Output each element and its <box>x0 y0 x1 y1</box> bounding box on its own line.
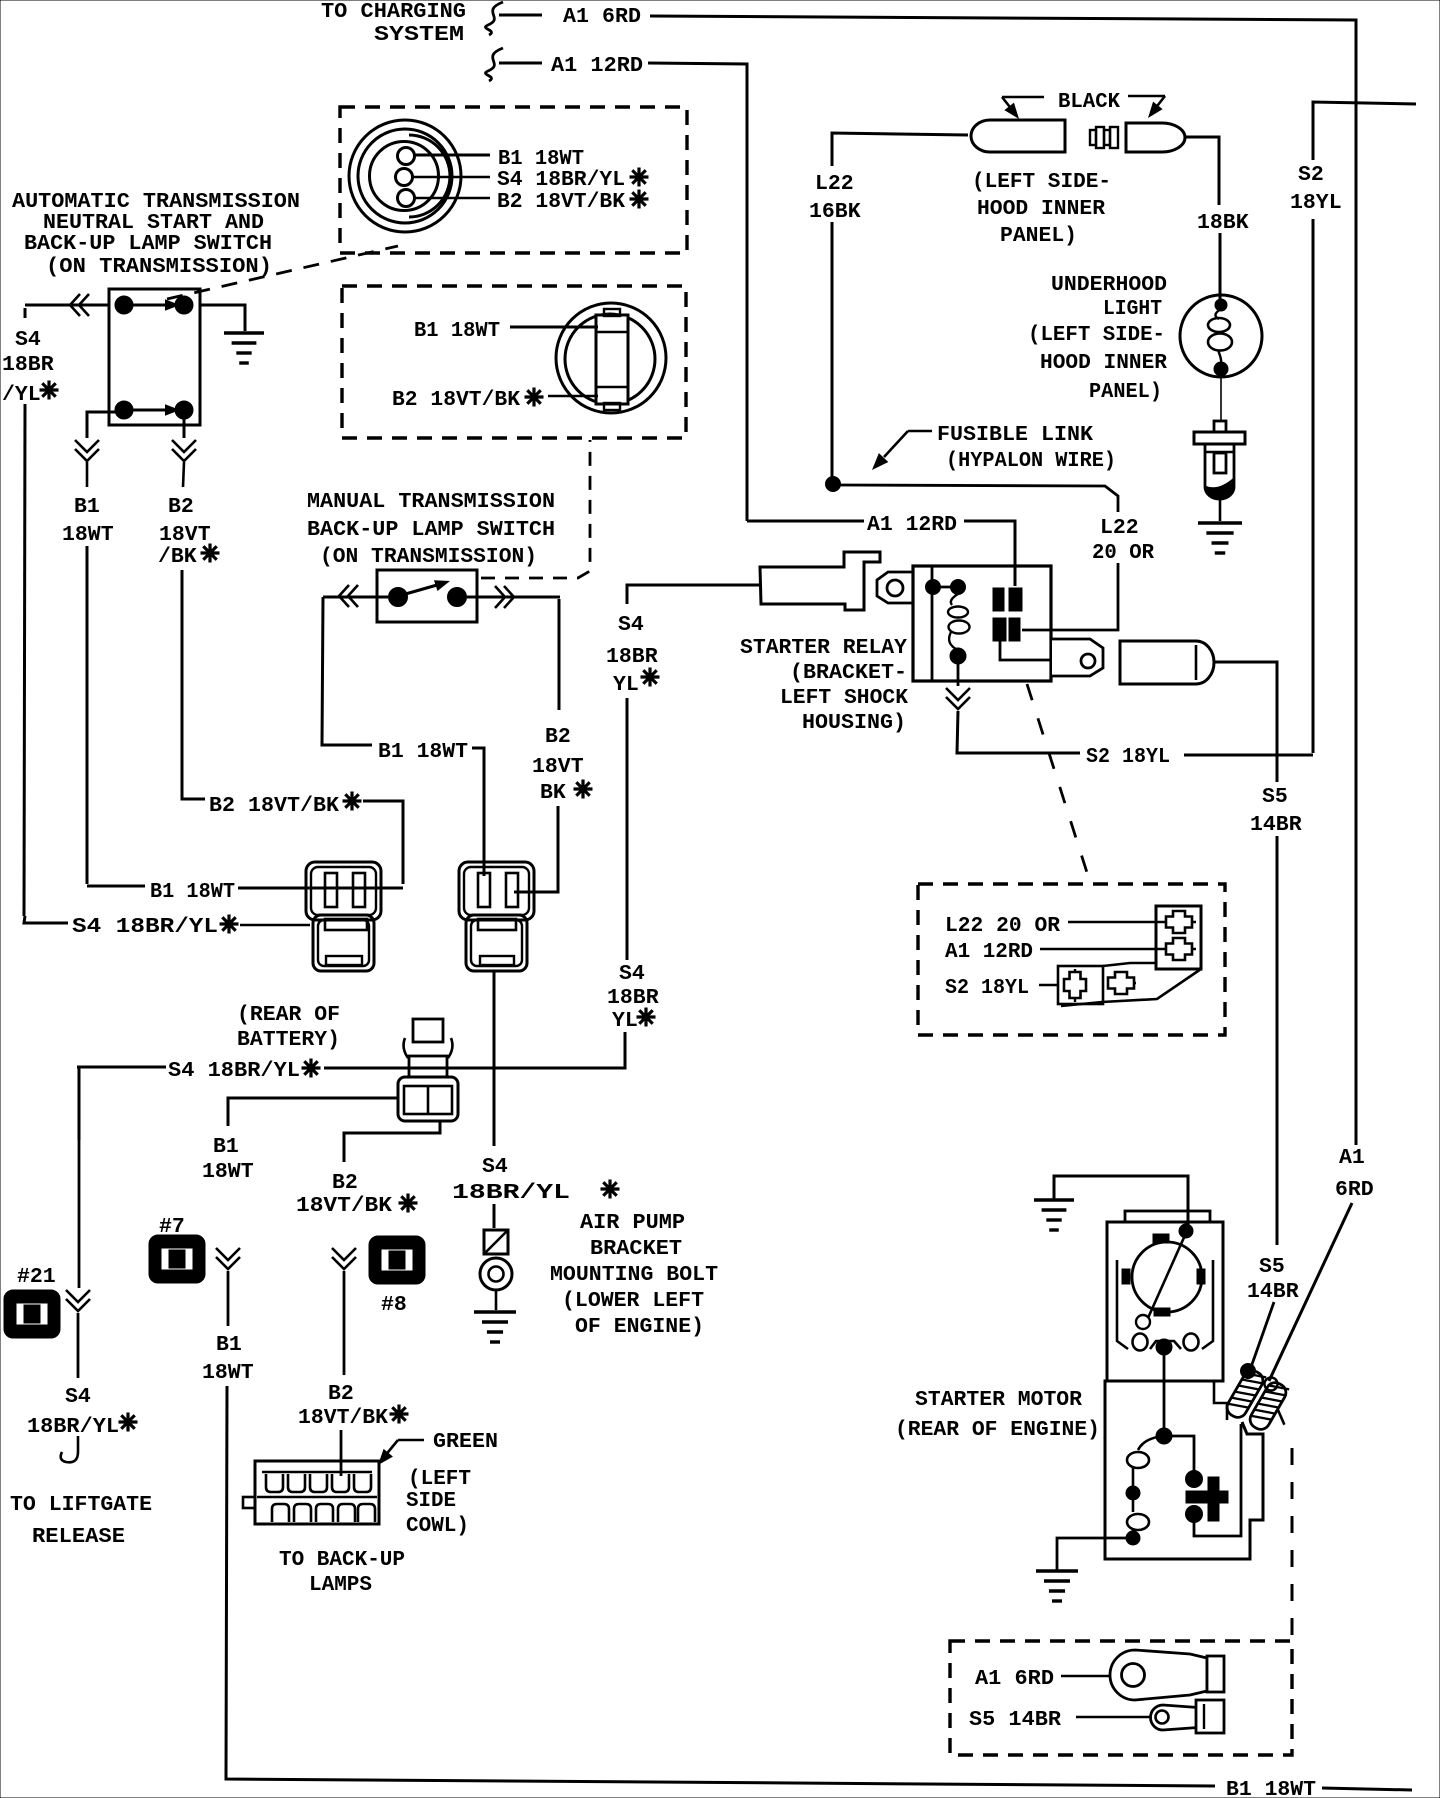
wire S4 liftgate <box>78 1140 81 1288</box>
label S2 18YL (relay) <box>1086 745 1170 769</box>
svg-text:BACK-UP LAMP SWITCH: BACK-UP LAMP SWITCH <box>24 232 272 256</box>
underhood light bulb <box>1180 295 1262 377</box>
label B2 18VT/BK (upper) <box>296 1171 418 1218</box>
motor armature circle <box>1132 1242 1202 1312</box>
wire B1 long drop <box>86 546 89 884</box>
wire break A1 12RD <box>486 48 503 81</box>
label B1 18WT (low) <box>202 1333 254 1385</box>
label 18BK <box>1197 211 1249 235</box>
svg-text:AIR PUMP: AIR PUMP <box>580 1211 685 1235</box>
chevrons relay S2 <box>946 688 970 709</box>
motor yoke <box>1117 1260 1213 1351</box>
svg-text:B2: B2 <box>328 1382 354 1406</box>
label B2 18VT/BK (oval) <box>392 388 544 413</box>
wire S5 diagonal <box>1250 1302 1274 1370</box>
svg-text:18VT/BK: 18VT/BK <box>296 1194 392 1218</box>
auto switch body <box>109 289 200 425</box>
contact dot <box>115 296 133 314</box>
wire B1 bottom right <box>1322 1788 1412 1790</box>
svg-text:18BR/YL: 18BR/YL <box>27 1415 119 1439</box>
svg-text:GREEN: GREEN <box>433 1430 498 1454</box>
ring terminal <box>1110 1650 1224 1700</box>
wire box4 A1 <box>1061 1675 1110 1678</box>
chevrons S4 liftgate <box>66 1290 90 1311</box>
svg-text:18BR: 18BR <box>2 353 54 377</box>
svg-text:14BR: 14BR <box>1250 813 1302 837</box>
label B2 18VT/BK (pin) <box>497 190 649 215</box>
svg-text:18WT: 18WT <box>62 523 114 547</box>
label B2 18VT BK (manual) <box>532 725 593 805</box>
label A1 6RD <box>563 5 641 29</box>
contact dot <box>115 401 133 419</box>
terminal cross A1 <box>1162 938 1196 960</box>
relay coil <box>948 594 970 650</box>
arrow to female connector <box>1002 97 1044 123</box>
svg-text:18YL: 18YL <box>1290 191 1342 215</box>
wire 18BK <box>1185 137 1219 205</box>
wire S2 label to column <box>1184 754 1313 757</box>
wire hook to liftgate <box>61 1436 78 1462</box>
ground (underhood light) <box>1198 523 1242 553</box>
wire manual B2 drop <box>558 599 561 710</box>
label S4 18BR YL (low col) <box>607 962 659 1033</box>
wire A1 12RD to relay <box>747 520 864 523</box>
svg-text:S4: S4 <box>618 613 644 637</box>
wire S2 top <box>1313 102 1416 160</box>
wire S4 to air pump <box>493 1204 496 1228</box>
label B1 18WT (col) <box>62 495 114 547</box>
label B2 18VT/BK (feed) <box>209 792 362 819</box>
svg-text:S2: S2 <box>1298 163 1324 187</box>
braided strap eyelet <box>1265 1378 1278 1391</box>
connector pin B2 <box>398 190 415 207</box>
wire A1 6RD top run <box>650 16 1356 1145</box>
label L22 16BK <box>809 172 861 224</box>
label A1 12RD (box3) <box>945 940 1033 964</box>
svg-text:HOOD INNER: HOOD INNER <box>977 197 1105 221</box>
label B1 18WT (splice) <box>202 1135 254 1184</box>
label TO CHARGING SYSTEM <box>321 0 466 47</box>
svg-text:A1 12RD: A1 12RD <box>867 513 957 537</box>
wire box3 L22 <box>1068 921 1162 924</box>
svg-text:B1 18WT: B1 18WT <box>414 319 500 343</box>
svg-text:S4: S4 <box>15 328 41 352</box>
label (REAR OF BATTERY) <box>237 1003 340 1052</box>
relay connector bracket <box>1058 906 1201 1006</box>
switch arm arrow top <box>133 299 180 310</box>
svg-text:PANEL): PANEL) <box>1000 224 1077 248</box>
svg-text:A1 6RD: A1 6RD <box>563 5 641 29</box>
wire S4 liftgate 2 <box>77 1313 80 1378</box>
relay coil bottom dot <box>950 648 966 664</box>
svg-text:A1 12RD: A1 12RD <box>551 54 643 78</box>
wire pin B1 lead <box>415 154 490 157</box>
wire B1 to connector A <box>87 885 145 888</box>
label S4 18BR/YL (feed) <box>72 915 239 940</box>
wire 18BK drop <box>1219 233 1222 299</box>
grommet #7 <box>149 1215 205 1283</box>
dashed leader switch to connector <box>167 246 398 299</box>
svg-text:(REAR OF: (REAR OF <box>237 1003 340 1027</box>
round connector body <box>349 120 461 232</box>
svg-text:YL: YL <box>613 673 639 697</box>
label S5 14BR (lower) <box>1247 1255 1299 1304</box>
svg-text:STARTER MOTOR: STARTER MOTOR <box>915 1388 1082 1412</box>
solenoid T contact <box>1186 1477 1228 1521</box>
label STARTER RELAY (BRACKET-LEFT SHOCK HOUSING) <box>740 636 908 735</box>
wire break A1 6RD <box>486 2 503 35</box>
label S4 18BR/YL (air pump) <box>452 1155 620 1205</box>
label UNDERHOOD LIGHT (LEFT SIDE-HOOD INNER PANEL) <box>1028 273 1167 404</box>
label S4 18BR/YL (liftgate) <box>27 1385 138 1439</box>
wire S4 through splice <box>324 1067 447 1070</box>
label A1 6RD (right col) <box>1335 1146 1374 1202</box>
connector B (rear of battery) <box>459 862 534 971</box>
dashed box connector detail (auto switch) <box>340 107 687 253</box>
svg-text:A1 6RD: A1 6RD <box>975 1667 1054 1691</box>
lamp terminal dot 2 <box>1214 362 1228 376</box>
wire S4 from connector B <box>493 972 496 1146</box>
svg-text:MANUAL TRANSMISSION: MANUAL TRANSMISSION <box>307 490 555 514</box>
braided strap 2 <box>1247 1379 1289 1432</box>
motor terminal dot <box>1179 1224 1193 1238</box>
wire B2 from auto switch <box>183 412 186 438</box>
label TO LIFTGATE RELEASE <box>10 1493 152 1549</box>
lamp filament <box>1208 309 1232 364</box>
label S4 18BR/YL (pin) <box>497 168 649 193</box>
svg-text:B2: B2 <box>168 495 194 519</box>
svg-text:BK: BK <box>540 781 566 805</box>
wire B2 long drop <box>182 570 205 799</box>
relay coil terminal dots <box>926 580 966 595</box>
svg-text:A1 12RD: A1 12RD <box>945 940 1033 964</box>
motor yoke dot <box>1156 1339 1172 1355</box>
terminal cross S2 <box>1064 969 1086 1002</box>
connector A (rear of battery) <box>306 862 381 971</box>
switch arm <box>402 576 452 595</box>
svg-text:B2 18VT/BK: B2 18VT/BK <box>392 388 520 412</box>
label S5 14BR (upper) <box>1250 785 1302 837</box>
svg-text:#8: #8 <box>381 1293 407 1317</box>
braided strap 1 <box>1224 1367 1266 1420</box>
label B2 18VT/BK (low) <box>298 1382 409 1430</box>
chevrons manual left <box>339 585 358 607</box>
wire relay coil to S2 <box>957 663 960 686</box>
svg-text:B1: B1 <box>74 495 100 519</box>
bullet connector female <box>971 120 1065 152</box>
starter motor body <box>1107 1222 1223 1381</box>
bullet connector male <box>1090 123 1185 152</box>
svg-text:TO CHARGING: TO CHARGING <box>321 0 466 24</box>
ground (auto switch) <box>224 333 264 363</box>
wire S4 left column <box>24 308 25 916</box>
wire S4 column <box>626 698 629 960</box>
wire manual B2 drop 2 <box>514 806 558 892</box>
starter motor cap <box>1125 1211 1210 1222</box>
svg-text:S4: S4 <box>619 962 645 986</box>
svg-text:20 OR: 20 OR <box>1092 541 1154 565</box>
wire L22 to relay <box>1022 563 1118 630</box>
svg-text:COWL): COWL) <box>406 1514 469 1538</box>
wire B2 from splice <box>344 1121 440 1162</box>
label S2 18YL (top) <box>1290 163 1342 215</box>
wire B2 low <box>343 1271 346 1375</box>
svg-text:(ON TRANSMISSION): (ON TRANSMISSION) <box>320 545 537 569</box>
solenoid contact dot 2 <box>1186 1506 1203 1523</box>
label B1 18WT (feed) <box>150 880 235 904</box>
wire fusible link run <box>840 485 1118 512</box>
relay contact output <box>1000 641 1051 660</box>
svg-text:PANEL): PANEL) <box>1089 380 1162 404</box>
svg-text:SIDE: SIDE <box>406 1489 456 1513</box>
svg-text:S5: S5 <box>1262 785 1288 809</box>
contact dot <box>175 401 193 419</box>
wire S5 column <box>1276 836 1279 1245</box>
label (LEFT SIDE-HOOD INNER PANEL) <box>972 170 1111 248</box>
label B1 18WT (manual) <box>378 740 468 764</box>
solenoid contact dot 1 <box>1186 1471 1203 1488</box>
wire A1 6RD stub <box>499 14 542 17</box>
ground (air pump) <box>474 1312 516 1342</box>
svg-text:/BK: /BK <box>158 545 197 569</box>
svg-text:S4 18BR/YL: S4 18BR/YL <box>168 1059 300 1083</box>
label S4 18BR/YL (splice) <box>168 1059 321 1084</box>
wire L22 16BK drop <box>831 222 834 479</box>
svg-text:LAMPS: LAMPS <box>309 1573 372 1597</box>
wire pin S4 lead <box>413 176 490 178</box>
contact dot <box>448 588 467 607</box>
wire B2 to connector A <box>363 801 403 884</box>
svg-text:(LEFT: (LEFT <box>408 1467 471 1491</box>
wire yoke to solenoid <box>1163 1355 1166 1433</box>
switch arm arrow bottom <box>133 404 180 415</box>
svg-text:B2: B2 <box>545 725 571 749</box>
wire B1 from splice <box>228 1098 398 1126</box>
wire auto switch to ground <box>200 305 245 331</box>
splice connector <box>398 1019 458 1121</box>
svg-text:HOOD INNER: HOOD INNER <box>1040 351 1167 375</box>
svg-text:18VT: 18VT <box>159 523 211 547</box>
wire oval B2 lead <box>548 395 598 397</box>
svg-text:L22 20 OR: L22 20 OR <box>945 914 1060 938</box>
label AIR PUMP BRACKET MOUNTING BOLT <box>550 1211 718 1339</box>
wire manual right <box>467 596 560 599</box>
solenoid coil dot 2 <box>1126 1531 1140 1545</box>
svg-text:B1: B1 <box>213 1135 239 1159</box>
label TO BACK-UP LAMPS <box>279 1548 405 1597</box>
terminal cross spare <box>1108 972 1136 994</box>
svg-text:BACK-UP LAMP SWITCH: BACK-UP LAMP SWITCH <box>307 518 555 542</box>
label S2 18YL (box3) <box>945 976 1029 1000</box>
relay terminal tab <box>877 572 913 603</box>
grommet #21 <box>4 1265 60 1338</box>
wire relay S2 run <box>957 711 1080 753</box>
label automatic transmission switch <box>12 190 300 279</box>
wire S4 label to connector A <box>240 924 310 927</box>
grommet #8 <box>369 1236 425 1317</box>
wire lamp to fuse <box>1220 377 1222 421</box>
svg-text:18BR/YL: 18BR/YL <box>452 1181 570 1205</box>
wire S5 from capsule <box>1214 662 1277 782</box>
label manual transmission switch <box>307 490 555 569</box>
svg-text:6RD: 6RD <box>1335 1178 1374 1202</box>
svg-text:S4 18BR/YL: S4 18BR/YL <box>497 168 625 192</box>
dashed box relay connector <box>918 884 1225 1035</box>
wire oval B1 lead <box>510 326 598 329</box>
label (LEFT SIDE COWL) <box>406 1467 471 1538</box>
motor diagonal <box>1136 1233 1186 1329</box>
svg-text:B1 18WT: B1 18WT <box>378 740 468 764</box>
wire manual B1 <box>322 597 372 745</box>
wire A1 12RD into relay <box>964 521 1015 586</box>
label BLACK <box>1058 90 1120 114</box>
wire solenoid contact <box>1164 1436 1194 1472</box>
svg-text:S2 18YL: S2 18YL <box>1086 745 1170 769</box>
svg-text:(REAR OF ENGINE): (REAR OF ENGINE) <box>895 1418 1100 1442</box>
label S5 14BR (box4) <box>969 1708 1061 1732</box>
svg-text:B1 18WT: B1 18WT <box>1226 1778 1316 1798</box>
relay contacts <box>993 588 1022 641</box>
motor brushes <box>1122 1234 1205 1316</box>
wire B1 label to connector A <box>238 887 403 890</box>
wire into auto switch <box>25 304 109 307</box>
svg-text:#21: #21 <box>17 1265 56 1289</box>
braided strap dot <box>1241 1364 1256 1379</box>
wire manual B1 drop <box>472 748 484 876</box>
wire S4 left of splice <box>77 1067 166 1140</box>
svg-text:(LEFT SIDE-: (LEFT SIDE- <box>1028 323 1165 347</box>
svg-text:FUSIBLE LINK: FUSIBLE LINK <box>937 423 1093 447</box>
chevrons B1 low <box>216 1248 240 1269</box>
svg-text:TO BACK-UP: TO BACK-UP <box>279 1548 405 1572</box>
svg-text:TO LIFTGATE: TO LIFTGATE <box>10 1493 152 1517</box>
arrow fusible link <box>867 431 932 474</box>
label B1 18WT (pin) <box>498 147 584 171</box>
svg-text:OF ENGINE): OF ENGINE) <box>575 1315 704 1339</box>
svg-text:16BK: 16BK <box>809 200 861 224</box>
chevrons B2 low <box>332 1248 356 1269</box>
wire L22 16BK <box>832 133 968 166</box>
wire S4 to relay <box>627 585 755 604</box>
svg-text:14BR: 14BR <box>1247 1280 1299 1304</box>
label A1 12RD <box>551 54 643 78</box>
svg-text:A1: A1 <box>1339 1146 1365 1170</box>
air pump bracket bolt symbol <box>480 1230 512 1310</box>
label S4 18BR YL (mid col) <box>606 613 660 697</box>
arrow GREEN <box>373 1440 424 1469</box>
svg-text:S4: S4 <box>482 1155 508 1179</box>
svg-text:(ON TRANSMISSION): (ON TRANSMISSION) <box>46 255 272 279</box>
label B2 18VT/BK (col) <box>158 495 220 569</box>
label GREEN <box>433 1430 498 1454</box>
wire solenoid contact 2 <box>1194 1424 1241 1536</box>
dashed leader manual switch to box2 <box>481 440 590 578</box>
ground (starter motor top) <box>1034 1176 1188 1230</box>
wire box3 A1 <box>1040 948 1162 951</box>
svg-text:HOUSING): HOUSING) <box>802 711 906 735</box>
wire B1 bottom run <box>226 1386 1215 1786</box>
svg-text:18WT: 18WT <box>202 1361 254 1385</box>
connector to back-up lamps <box>243 1461 379 1524</box>
svg-text:S5 14BR: S5 14BR <box>969 1708 1061 1732</box>
svg-text:B1: B1 <box>216 1333 242 1357</box>
dashed box connector detail (manual switch) <box>342 286 686 438</box>
contact dot <box>175 296 193 314</box>
svg-text:18WT: 18WT <box>202 1160 254 1184</box>
label STARTER MOTOR (REAR OF ENGINE) <box>895 1388 1100 1442</box>
wire fuse to ground <box>1219 498 1222 521</box>
svg-text:LIGHT: LIGHT <box>1103 297 1162 321</box>
solenoid coil <box>1127 1436 1164 1538</box>
connector pin S4 <box>396 169 413 186</box>
label FUSIBLE LINK (HYPALON WIRE) <box>937 423 1116 473</box>
wire B2 to backup connector <box>340 1430 343 1476</box>
svg-text:RELEASE: RELEASE <box>32 1525 125 1549</box>
svg-text:YL: YL <box>612 1009 638 1033</box>
connector pin B1 <box>398 148 415 165</box>
dashed box battery terminals <box>950 1641 1292 1755</box>
chevrons B2 <box>172 440 196 461</box>
oval connector key <box>596 309 628 410</box>
svg-text:LEFT SHOCK: LEFT SHOCK <box>780 686 908 710</box>
svg-text:L22: L22 <box>815 172 854 196</box>
terminal cross L22 <box>1162 911 1196 933</box>
arrow to male connector <box>1128 96 1165 122</box>
spade connector (relay input) <box>750 552 880 610</box>
relay output capsule <box>1120 641 1214 684</box>
svg-text:BRACKET: BRACKET <box>590 1237 682 1261</box>
svg-text:B2: B2 <box>332 1171 358 1195</box>
dashed line to box4 <box>1291 1448 1294 1641</box>
label B1 18WT (bottom) <box>1226 1778 1316 1798</box>
oval connector body <box>556 303 666 413</box>
svg-text:UNDERHOOD: UNDERHOOD <box>1051 273 1167 297</box>
wire B1 from auto switch <box>87 412 124 438</box>
svg-text:(HYPALON WIRE): (HYPALON WIRE) <box>946 449 1116 473</box>
wire box3 S2 <box>1039 984 1058 987</box>
junction dot L22 <box>826 477 841 492</box>
svg-text:STARTER RELAY: STARTER RELAY <box>740 636 907 660</box>
lamp terminal dot <box>1215 299 1227 311</box>
svg-text:S4: S4 <box>65 1385 91 1409</box>
svg-text:B2 18VT/BK: B2 18VT/BK <box>497 190 625 214</box>
wire A1 12RD stub <box>499 62 542 65</box>
svg-text:18VT: 18VT <box>532 755 584 779</box>
wire pin B2 lead <box>415 197 490 199</box>
contact dot <box>389 588 408 607</box>
chevrons manual right <box>495 586 514 608</box>
svg-text:18VT/BK: 18VT/BK <box>298 1406 388 1430</box>
svg-text:B1 18WT: B1 18WT <box>150 880 235 904</box>
label A1 12RD (relay) <box>867 513 957 537</box>
dashed leader motor <box>1278 1410 1288 1433</box>
svg-text:B2 18VT/BK: B2 18VT/BK <box>209 794 339 818</box>
chevrons B1 <box>75 440 99 461</box>
dashed leader relay to box3 <box>1027 684 1090 882</box>
wire into manual switch <box>323 596 388 599</box>
starter solenoid outline <box>1105 1381 1263 1559</box>
label L22 20 OR (box3) <box>945 914 1060 938</box>
svg-text:S2 18YL: S2 18YL <box>945 976 1029 1000</box>
fuse holder <box>1194 421 1245 499</box>
wire S4 to connector A <box>24 916 68 923</box>
svg-text:(BRACKET-: (BRACKET- <box>790 661 907 685</box>
manual switch body <box>377 570 477 622</box>
solenoid coil dot 1 <box>1126 1486 1140 1500</box>
label A1 6RD (box4) <box>975 1667 1054 1691</box>
svg-text:18BK: 18BK <box>1197 211 1249 235</box>
wire S4 column 2 <box>447 1032 625 1068</box>
